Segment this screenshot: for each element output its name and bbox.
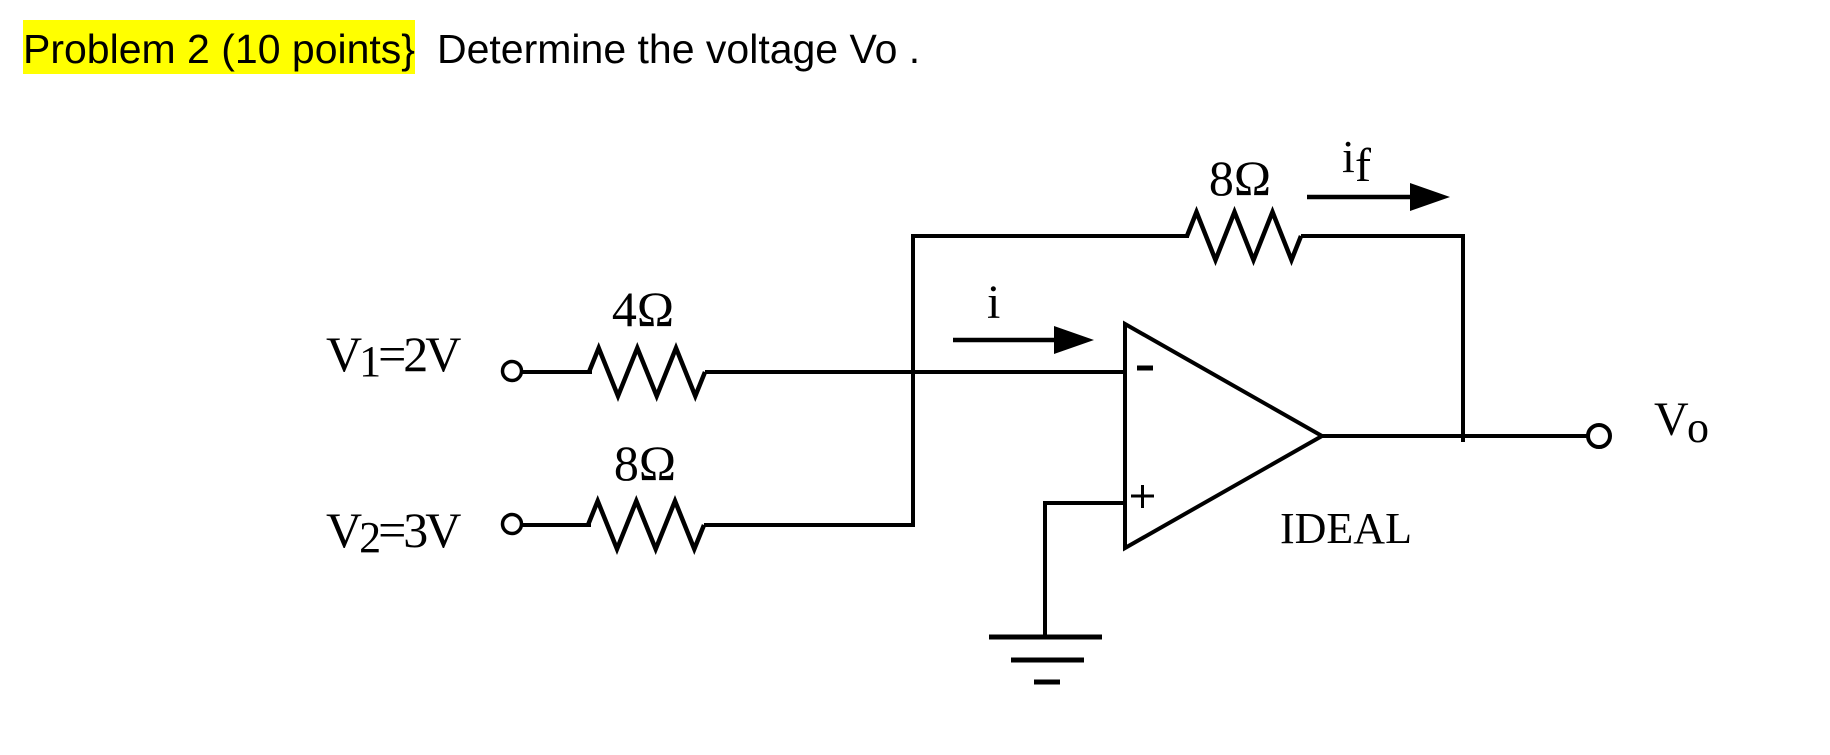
- wire V2 terminal to R 8ohm: [522, 523, 591, 527]
- title highlight: [23, 20, 415, 74]
- arrowhead i: [1054, 326, 1094, 354]
- plus sign at non-inverting pin: [1131, 495, 1154, 498]
- arrowhead if: [1410, 183, 1450, 211]
- resistor R 4ohm: [589, 348, 705, 396]
- wire op-amp output to terminal: [1322, 434, 1587, 438]
- svg-text:f: f: [1355, 139, 1371, 192]
- svg-text:o: o: [1687, 403, 1709, 452]
- svg-text:8Ω: 8Ω: [1209, 150, 1271, 206]
- svg-text:i: i: [987, 276, 1000, 329]
- source terminal V1: [503, 362, 522, 381]
- minus sign at inverting pin: [1137, 366, 1153, 371]
- source terminal V2: [503, 515, 522, 534]
- svg-text:8Ω: 8Ω: [614, 435, 676, 491]
- wire V1 terminal to R 4ohm: [522, 370, 592, 374]
- svg-text:IDEAL: IDEAL: [1280, 504, 1412, 553]
- wire Rf to right corner: [1301, 234, 1463, 238]
- svg-text:V1=2V: V1=2V: [326, 326, 461, 386]
- svg-text:4Ω: 4Ω: [612, 281, 674, 337]
- ground: [989, 635, 1102, 640]
- output terminal circle: [1588, 425, 1610, 447]
- wire node A vertical riser: [913, 236, 1189, 527]
- svg-text:V: V: [1654, 393, 1689, 446]
- svg-text:i: i: [1342, 131, 1355, 182]
- resistor Rf 8ohm feedback: [1187, 212, 1301, 260]
- svg-text:Problem 2 (10 points}: Problem 2 (10 points}: [23, 26, 415, 72]
- svg-text:V2=3V: V2=3V: [326, 502, 461, 562]
- current arrow i: [953, 338, 1058, 343]
- current arrow if: [1307, 195, 1412, 200]
- wire feedback right vertical to output node: [1461, 234, 1465, 442]
- wire non-inverting input: [1045, 503, 1125, 637]
- wire R 4ohm to op-amp inverting input: [705, 370, 1125, 374]
- resistor R 8ohm input: [588, 501, 704, 549]
- wire R 8ohm to node A: [704, 523, 913, 527]
- svg-text:Determine the voltage Vo .: Determine the voltage Vo .: [437, 26, 920, 72]
- op-amp U1 triangle: [1125, 324, 1322, 548]
